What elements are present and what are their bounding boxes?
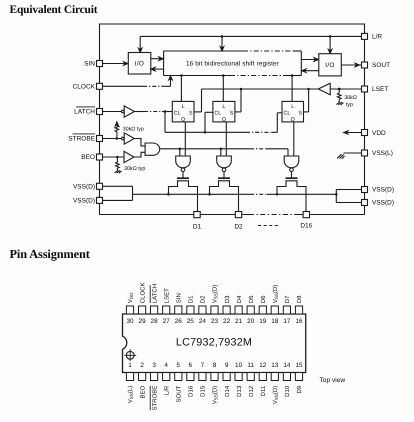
pin 12 label D11 xyxy=(260,385,267,396)
pin 29 stub xyxy=(139,306,146,314)
pin 28 label LATCH xyxy=(150,284,158,303)
svg-text:VSS(D): VSS(D) xyxy=(73,198,95,205)
svg-text:LC7932,7932M: LC7932,7932M xyxy=(176,337,252,349)
svg-text:30kΩ: 30kΩ xyxy=(344,95,357,101)
pin LATCH xyxy=(97,109,103,115)
svg-text:13: 13 xyxy=(271,362,279,369)
svg-text:CLOCK: CLOCK xyxy=(73,84,96,91)
pin LSET xyxy=(362,86,368,92)
svg-text:LATCH: LATCH xyxy=(151,284,158,303)
pin 18 label VSS(D) xyxy=(272,285,279,304)
pin 9 label D14 xyxy=(224,385,231,397)
pin 2 label BEO xyxy=(139,385,146,398)
pin 25 label D1 xyxy=(188,295,195,303)
svg-text:SIN: SIN xyxy=(84,61,95,68)
NAND gate G1 (output driver 1) xyxy=(176,156,191,172)
svg-text:D14: D14 xyxy=(224,385,231,397)
wire VDD supply arrow xyxy=(344,131,362,134)
svg-text:D7: D7 xyxy=(284,295,291,303)
ground (VSS(L)) xyxy=(337,154,344,159)
pin 8 stub xyxy=(211,373,218,381)
wire LATCH to buffer xyxy=(103,111,122,113)
IC outline (equivalent circuit package boundary) xyxy=(100,24,365,215)
pin 1 label VSS(L) xyxy=(127,386,134,404)
pin SIN xyxy=(97,61,103,67)
svg-text:9: 9 xyxy=(225,362,229,369)
pin 24 label D2 xyxy=(200,295,207,303)
svg-text:11: 11 xyxy=(247,362,254,369)
svg-text:VSS(D): VSS(D) xyxy=(372,200,394,207)
pin STROBE xyxy=(97,136,103,142)
wire latch cell 1 Q to gate xyxy=(184,122,186,156)
pin VDD xyxy=(362,130,368,136)
pin 17 stub xyxy=(283,306,290,314)
svg-text:VDD: VDD xyxy=(127,292,134,303)
pin D1 xyxy=(194,212,200,218)
svg-text:S: S xyxy=(298,111,302,117)
svg-text:30kΩ typ: 30kΩ typ xyxy=(124,166,145,172)
svg-text:29: 29 xyxy=(139,318,147,325)
svg-text:8: 8 xyxy=(213,362,217,369)
VSS(D) bracket left xyxy=(103,186,133,200)
latch cell 2 xyxy=(213,101,235,123)
svg-text:14: 14 xyxy=(283,362,291,369)
pin 23 label VSS(D) xyxy=(212,285,219,304)
resistor 30k pull-up (STROBE) xyxy=(115,122,119,140)
pin 6 stub xyxy=(187,373,194,381)
svg-text:L: L xyxy=(222,104,225,110)
wire VSS(L) to ground xyxy=(344,152,362,154)
wire I/O to SOUT (arrow right) xyxy=(341,63,361,66)
svg-text:24: 24 xyxy=(199,318,207,325)
svg-text:Equivalent Circuit: Equivalent Circuit xyxy=(10,4,98,16)
pin 4 stub xyxy=(163,373,170,381)
pin 27 label LSET xyxy=(163,288,170,303)
svg-text:CL: CL xyxy=(174,111,181,117)
svg-text:Q: Q xyxy=(181,117,185,123)
pin 27 stub xyxy=(163,306,170,314)
wire I/O to shift register (upper, arrow right) xyxy=(151,57,163,60)
package pins: stubs, numbers, labels xyxy=(126,283,303,411)
svg-text:D1: D1 xyxy=(188,295,195,303)
svg-text:D16: D16 xyxy=(188,385,195,397)
svg-text:CL: CL xyxy=(284,111,291,117)
svg-text:20: 20 xyxy=(247,318,255,325)
svg-text:23: 23 xyxy=(211,318,219,325)
pin 21 label D4 xyxy=(236,295,243,303)
wire STROBE to buffer xyxy=(103,138,122,140)
transistor Q2 (open drain output D2) xyxy=(210,171,239,211)
pin 7 stub xyxy=(199,373,206,381)
wire right I/O to shift register (lower, arrow left) xyxy=(302,69,319,72)
pin 28 stub xyxy=(151,306,158,314)
svg-text:22: 22 xyxy=(223,318,231,325)
svg-text:VSS(D): VSS(D) xyxy=(212,386,219,405)
resistor 30k pull-down (BEO) xyxy=(116,156,120,171)
svg-text:D5: D5 xyxy=(248,295,255,303)
svg-text:VDD: VDD xyxy=(372,130,386,137)
pin 26 label SIN xyxy=(176,293,183,303)
svg-text:15: 15 xyxy=(295,362,303,369)
strobe enable bus to output gates xyxy=(160,148,288,157)
I/O block U3 (right) xyxy=(319,54,342,76)
wire shift register to right I/O (upper, arrow right) xyxy=(302,58,319,61)
svg-text:4: 4 xyxy=(164,362,168,369)
svg-text:BEO: BEO xyxy=(139,385,146,398)
pin 2 stub xyxy=(139,373,146,381)
svg-text:STROBE: STROBE xyxy=(151,386,158,411)
pin 30 label VDD xyxy=(127,292,134,303)
transistor Q1 (open drain output D1) xyxy=(169,171,198,211)
ground (BEO pull-down) xyxy=(115,170,122,173)
svg-text:VSS(D): VSS(D) xyxy=(73,184,95,191)
pin VSS(D) left 2 xyxy=(97,197,103,203)
buffer A2 (STROBE, input bubble) xyxy=(122,133,135,144)
svg-text:Q: Q xyxy=(222,117,226,123)
latch cell 1 xyxy=(172,101,194,123)
pin 25 stub xyxy=(187,306,194,314)
pin 12 stub xyxy=(259,373,266,381)
pin 14 label D10 xyxy=(284,385,291,397)
svg-text:2: 2 xyxy=(140,362,144,369)
LSET bus to latch cell S inputs xyxy=(194,88,318,112)
svg-text:26: 26 xyxy=(175,318,183,325)
svg-text:SOUT: SOUT xyxy=(372,62,390,69)
pin VSS(D) left 1 xyxy=(97,183,103,189)
pin 26 stub xyxy=(175,306,182,314)
wire shift register to I/O (lower, arrow left) xyxy=(151,67,163,70)
pin D16 xyxy=(303,212,309,218)
VSS(D) bracket right xyxy=(336,190,361,203)
svg-text:I/O: I/O xyxy=(325,62,334,69)
pin D2 xyxy=(235,212,241,218)
buffer A4 (LSET, points left) xyxy=(318,83,330,94)
AND gate U4 (strobe enable) xyxy=(145,143,160,155)
pin L/R xyxy=(362,33,368,39)
svg-text:VSS(D): VSS(D) xyxy=(212,285,219,304)
svg-text:S: S xyxy=(189,111,193,117)
pin 5 label SOUT xyxy=(176,385,183,402)
svg-text:S: S xyxy=(230,111,234,117)
svg-text:VSS(D): VSS(D) xyxy=(272,386,279,405)
pin 17 label D7 xyxy=(284,295,291,303)
pin CLOCK xyxy=(97,83,103,89)
svg-text:D1: D1 xyxy=(193,223,202,230)
svg-text:D2: D2 xyxy=(234,223,243,230)
svg-text:VSS(L): VSS(L) xyxy=(372,150,393,157)
wire latch cell 16 Q to gate xyxy=(293,122,295,156)
svg-text:VSS(D): VSS(D) xyxy=(372,187,394,194)
pin 13 label VSS(D) xyxy=(272,386,279,405)
svg-text:18: 18 xyxy=(271,318,279,325)
svg-text:12: 12 xyxy=(259,362,267,369)
pin 3 label STROBE xyxy=(150,386,158,411)
svg-text:28: 28 xyxy=(151,318,159,325)
pin 10 stub xyxy=(235,373,242,381)
svg-text:21: 21 xyxy=(235,318,243,325)
svg-text:6: 6 xyxy=(189,362,193,369)
pin 22 label D3 xyxy=(224,295,231,303)
wire BEO buffer to AND gate xyxy=(134,152,145,157)
pin 4 label L/R xyxy=(163,385,170,395)
svg-text:LATCH: LATCH xyxy=(74,109,95,116)
svg-text:25: 25 xyxy=(187,318,195,325)
svg-text:D16: D16 xyxy=(300,223,312,230)
wire CLOCK to shift register xyxy=(103,76,173,87)
pin 10 label D13 xyxy=(236,385,243,397)
buffer A3 (BEO) xyxy=(124,151,134,162)
transistor Q16 (open drain output D16) xyxy=(277,171,306,211)
svg-text:I/O: I/O xyxy=(135,61,144,68)
pin 9 stub xyxy=(223,373,230,381)
pin 30 stub xyxy=(126,306,133,314)
pin 3 stub xyxy=(151,373,158,381)
VSS bus (sources) xyxy=(133,193,338,196)
pin 19 label D6 xyxy=(260,295,267,303)
svg-text:5: 5 xyxy=(177,362,181,369)
svg-text:7: 7 xyxy=(201,362,205,369)
svg-text:LSET: LSET xyxy=(163,288,170,303)
pin 16 stub xyxy=(295,306,302,314)
pin 24 stub xyxy=(199,306,206,314)
net label LATCH (active low) xyxy=(74,107,95,116)
wire BEO to buffer xyxy=(103,156,125,158)
DIP package body L07932 xyxy=(123,314,306,373)
svg-text:CLOCK: CLOCK xyxy=(139,283,146,304)
pin 16 label D8 xyxy=(296,295,303,303)
wire shift register to latch cell 16 L input xyxy=(291,74,294,101)
wire LSET pin to buffer xyxy=(330,88,361,90)
pin 5 stub xyxy=(175,373,182,381)
pin 18 stub xyxy=(271,306,278,314)
pin 14 stub xyxy=(283,373,290,381)
pin 15 label D9 xyxy=(296,385,303,393)
svg-text:D3: D3 xyxy=(224,295,231,303)
pin 6 label D16 xyxy=(188,385,195,397)
wire LATCH buffer output to latch cells (dash-dot bus) xyxy=(134,110,282,133)
svg-text:D6: D6 xyxy=(260,295,267,303)
svg-text:D4: D4 xyxy=(236,295,243,303)
16 bit bidirectional shift register U2 xyxy=(164,51,302,76)
svg-text:1: 1 xyxy=(128,362,132,369)
svg-text:16: 16 xyxy=(295,318,303,325)
pin VSS(D) right 1 xyxy=(362,187,368,193)
wire shift register to latch cell 1 L input xyxy=(180,74,183,101)
svg-text:SOUT: SOUT xyxy=(176,385,183,402)
pin VSS(D) right 2 xyxy=(362,200,368,206)
NAND gate G16 (output driver 16) xyxy=(284,156,299,172)
value label 30kohm typ (LSET) xyxy=(344,95,357,108)
svg-text:CL: CL xyxy=(214,111,221,117)
wire SIN to I/O xyxy=(103,62,128,65)
svg-text:Pin Assignment: Pin Assignment xyxy=(10,247,91,261)
I/O block U1 (left) xyxy=(128,53,151,75)
pin 22 stub xyxy=(223,306,230,314)
svg-text:D8: D8 xyxy=(296,295,303,303)
svg-text:19: 19 xyxy=(259,318,267,325)
pin 20 label D5 xyxy=(248,295,255,303)
wire STROBE buffer to AND gate xyxy=(134,139,145,146)
svg-text:D11: D11 xyxy=(260,385,267,396)
pin VSS(L) xyxy=(362,150,368,156)
svg-text:30kΩ typ: 30kΩ typ xyxy=(123,127,144,133)
pin 29 label CLOCK xyxy=(139,283,146,304)
svg-text:3: 3 xyxy=(152,362,156,369)
wire shift register to latch cell 2 L input xyxy=(222,74,225,101)
wire L/R inner bus xyxy=(139,35,362,53)
pin 1 stub xyxy=(126,373,133,381)
svg-text:L/R: L/R xyxy=(163,385,170,395)
svg-text:BEO: BEO xyxy=(81,154,95,161)
NAND gate G2 (output driver 2) xyxy=(217,156,232,172)
svg-text:27: 27 xyxy=(163,318,171,325)
svg-text:L: L xyxy=(291,104,294,110)
net label STROBE (active low) xyxy=(68,134,95,143)
pin 8 label VSS(D) xyxy=(212,386,219,405)
pin SOUT xyxy=(362,62,368,68)
svg-text:D13: D13 xyxy=(236,385,243,397)
svg-text:LSET: LSET xyxy=(372,86,388,93)
svg-text:VSS(D): VSS(D) xyxy=(272,285,279,304)
svg-text:D15: D15 xyxy=(200,385,207,397)
svg-text:SIN: SIN xyxy=(176,293,183,303)
svg-text:D12: D12 xyxy=(248,385,255,397)
pin 21 stub xyxy=(235,306,242,314)
svg-text:30: 30 xyxy=(126,318,134,325)
svg-text:L: L xyxy=(182,104,185,110)
latch cell 16 xyxy=(282,101,304,123)
ground (LSET resistor) xyxy=(336,102,343,105)
svg-text:STROBE: STROBE xyxy=(68,136,95,143)
svg-text:L/R: L/R xyxy=(372,34,382,41)
pin 20 stub xyxy=(247,306,254,314)
resistor 30k pull (LSET) xyxy=(337,88,341,102)
pin 19 stub xyxy=(259,306,266,314)
pin 7 label D15 xyxy=(200,385,207,397)
pin BEO xyxy=(97,154,103,160)
svg-text:D2: D2 xyxy=(200,295,207,303)
pin 23 stub xyxy=(211,306,218,314)
pin 11 stub xyxy=(247,373,254,381)
svg-text:D10: D10 xyxy=(284,385,291,397)
ellipsis between D2 and D16 xyxy=(258,225,279,227)
pin 15 stub xyxy=(295,373,302,381)
svg-text:17: 17 xyxy=(283,318,291,325)
svg-text:VSS(L): VSS(L) xyxy=(127,386,134,404)
wire latch cell 2 Q to gate xyxy=(225,122,227,156)
svg-text:10: 10 xyxy=(235,362,243,369)
pin 1 index marker (crosshair) xyxy=(124,349,136,361)
pin 13 stub xyxy=(271,373,278,381)
svg-text:D9: D9 xyxy=(296,385,303,393)
svg-text:16 bit bidirectional shift re: 16 bit bidirectional shift register xyxy=(186,60,280,67)
svg-text:Top view: Top view xyxy=(320,377,346,384)
svg-text:typ: typ xyxy=(346,102,353,108)
pin 11 label D12 xyxy=(248,385,255,397)
buffer A1 (LATCH, input bubble) xyxy=(122,106,135,117)
